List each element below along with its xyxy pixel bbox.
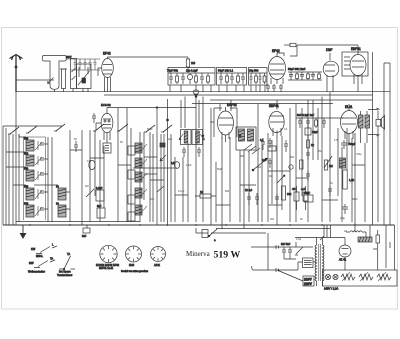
row C capacitor 5 bbox=[311, 72, 315, 80]
svg-text:380: 380 bbox=[373, 248, 378, 251]
bus y103.5 bbox=[192, 103, 333, 105]
capacitor 0.1 left bbox=[268, 138, 272, 148]
box 0.1uF bbox=[96, 187, 104, 201]
volume pot bbox=[277, 175, 285, 183]
svg-text:50pF: 50pF bbox=[147, 128, 153, 131]
tube V5 DBF bbox=[323, 57, 339, 84]
tube V8 EL41 output bbox=[341, 104, 358, 145]
svg-text:410: 410 bbox=[87, 160, 92, 163]
tuner verticals mid bbox=[48, 108, 131, 226]
component row A box bbox=[168, 68, 215, 86]
row C1 resistor 2 bbox=[255, 73, 258, 84]
resistor on B+ line bbox=[284, 43, 296, 46]
IF transformer T1 unit B bbox=[192, 130, 205, 145]
svg-text:20k: 20k bbox=[287, 192, 292, 196]
box around EAF42 bbox=[214, 108, 237, 137]
detector switch lever bbox=[253, 158, 268, 170]
mid-right verticals bbox=[268, 92, 378, 225]
svg-text:1,2k: 1,2k bbox=[349, 178, 355, 182]
input block box 2 bbox=[77, 64, 92, 89]
svg-text:2B47: 2B47 bbox=[66, 56, 72, 59]
svg-text:5nF 5nF: 5nF 5nF bbox=[281, 243, 291, 246]
svg-text:Wellenschalter: Wellenschalter bbox=[28, 270, 45, 274]
switch lever t7 bbox=[161, 125, 172, 132]
coil group 5 bbox=[24, 203, 44, 218]
caps under V4 c bbox=[279, 84, 283, 92]
coil group 4 bbox=[24, 186, 44, 201]
box col x128 3 bbox=[128, 195, 135, 204]
svg-text:220V: 220V bbox=[304, 282, 313, 286]
row C1 capacitor 3 bbox=[259, 73, 262, 84]
svg-text:1k 4,0: 1k 4,0 bbox=[245, 188, 253, 192]
rail junction dots bbox=[29, 224, 356, 226]
mains wires to trafo bbox=[277, 242, 313, 281]
svg-text:50B: 50B bbox=[24, 203, 29, 206]
resistor diag c bbox=[86, 189, 94, 197]
tone switch diagonal bbox=[324, 156, 332, 168]
switch lever t5 bbox=[117, 124, 128, 131]
component row C rails bbox=[288, 72, 322, 80]
tube socket S1 bbox=[100, 245, 117, 262]
box 5n bbox=[97, 205, 105, 218]
ground bbox=[20, 225, 27, 239]
voltage box lower bbox=[303, 276, 314, 286]
antenna bbox=[10, 55, 23, 93]
top row cap b bbox=[79, 59, 82, 70]
junction dots mid bbox=[202, 135, 204, 137]
IF transformer T1 unit A bbox=[179, 130, 191, 145]
capacitor 50uF r bbox=[342, 204, 348, 214]
svg-text:KW: KW bbox=[31, 247, 36, 251]
svg-text:4,5µ: 4,5µ bbox=[340, 217, 345, 220]
switch lever t3 bbox=[54, 124, 65, 131]
caps under V4 b bbox=[272, 84, 276, 92]
horizontal link y174 bbox=[144, 173, 157, 175]
svg-text:Minerva: Minerva bbox=[186, 250, 211, 258]
switch lever t1 bbox=[8, 127, 19, 134]
wire V1 top to resistor bbox=[108, 56, 189, 58]
tuner coil col4 group d bbox=[135, 188, 147, 198]
filter choke bbox=[346, 231, 366, 232]
row A capacitor 1 bbox=[169, 73, 173, 84]
resistor under ECH42 bbox=[103, 143, 111, 153]
svg-text:EF42: EF42 bbox=[272, 49, 280, 53]
short verticals above T1 bbox=[181, 97, 231, 138]
junction arrow above trafo bbox=[320, 236, 324, 240]
svg-text:TA: TA bbox=[67, 252, 70, 256]
coil group 2 bbox=[24, 153, 44, 167]
cap right of EBF bbox=[284, 140, 288, 152]
wave switch diagram MW bbox=[29, 257, 55, 268]
row drops to bus bbox=[170, 85, 265, 92]
resistor 1.2k tall bbox=[343, 170, 355, 189]
cap 180pF bbox=[261, 138, 265, 150]
coupling core bar bbox=[60, 69, 67, 89]
input block box 1 bbox=[71, 59, 77, 89]
svg-text:5nF: 5nF bbox=[97, 205, 102, 208]
coil group 6 bbox=[56, 186, 66, 201]
svg-text:1µF: 1µF bbox=[262, 158, 267, 162]
fuse blob on bus bbox=[193, 90, 199, 97]
svg-text:170: 170 bbox=[334, 139, 339, 142]
svg-text:4M: 4M bbox=[269, 175, 272, 178]
svg-text:EM4: EM4 bbox=[129, 264, 135, 267]
component row B box bbox=[217, 68, 247, 86]
tuner vertical bundle left bbox=[6, 128, 19, 225]
resistor R 1M bbox=[186, 57, 195, 73]
svg-text:50B: 50B bbox=[24, 168, 29, 171]
svg-text:DBF: DBF bbox=[326, 48, 332, 52]
svg-text:AZ 41: AZ 41 bbox=[339, 258, 347, 262]
wire antenna down bbox=[15, 92, 17, 225]
rectifier tube AZ41 bbox=[339, 238, 351, 267]
tube V2 ECH42 bbox=[96, 108, 113, 144]
V5 wires bbox=[327, 53, 333, 92]
component row C1 box bbox=[249, 68, 268, 86]
top row cap c bbox=[84, 59, 87, 70]
row C capacitor 1 bbox=[289, 72, 293, 80]
dial lamp 1 bbox=[325, 274, 330, 279]
svg-text:50µF: 50µF bbox=[352, 198, 358, 201]
mains lead wire top bbox=[251, 247, 268, 270]
tube V6 EL41 top bbox=[350, 52, 366, 92]
box 30nF bbox=[304, 191, 313, 202]
svg-text:EL41: EL41 bbox=[345, 105, 353, 109]
resistor 50k vert bbox=[300, 160, 303, 169]
switch under T2 bbox=[244, 144, 260, 154]
svg-text:TA: TA bbox=[50, 257, 53, 261]
row C1 capacitor 1 bbox=[250, 73, 253, 84]
svg-text:50B: 50B bbox=[24, 186, 29, 189]
svg-text:25n: 25n bbox=[318, 150, 323, 153]
svg-text:50pF 10k 0.1: 50pF 10k 0.1 bbox=[218, 69, 234, 73]
diag lever mid bbox=[157, 186, 164, 192]
svg-text:700pF: 700pF bbox=[348, 142, 356, 146]
svg-text:0,5: 0,5 bbox=[171, 161, 175, 165]
svg-text:5nF 0.1µF 1nF: 5nF 0.1µF 1nF bbox=[297, 113, 314, 117]
cap 0.5uF bbox=[171, 161, 180, 168]
svg-text:519 W: 519 W bbox=[214, 250, 241, 261]
svg-text:4pF: 4pF bbox=[168, 138, 173, 141]
row D under line bbox=[296, 117, 344, 119]
tube V1 EF42 bbox=[98, 57, 113, 92]
resistor small box bbox=[268, 146, 276, 151]
bus y96.5 bbox=[104, 94, 373, 96]
tuner top rail bbox=[3, 126, 62, 225]
tuner link lines bbox=[6, 134, 70, 209]
svg-text:40: 40 bbox=[292, 187, 296, 191]
svg-text:0,1µF: 0,1µF bbox=[178, 190, 185, 193]
resistor 20k box bbox=[282, 186, 292, 200]
bus y100 bbox=[210, 99, 373, 101]
wire ECH42 top bbox=[107, 107, 196, 109]
voltage selector box upper bbox=[303, 258, 317, 268]
main bus y92 bbox=[16, 90, 390, 92]
capacitor mid2 bbox=[255, 193, 259, 205]
mains switch diag bbox=[295, 247, 303, 255]
row C resistor 2 bbox=[296, 72, 299, 80]
row B capacitor 3 bbox=[230, 73, 234, 84]
capacitor 700p bbox=[341, 140, 356, 149]
row B capacitor 5 bbox=[241, 73, 245, 84]
assorted link segments bbox=[70, 150, 365, 205]
assorted small labels bbox=[74, 121, 378, 251]
row C capacitor 3 bbox=[300, 72, 304, 80]
diag arrow mid bbox=[160, 155, 166, 161]
oval coil b bbox=[89, 160, 95, 169]
jack circle bbox=[289, 165, 293, 169]
tuner coil col4 group e bbox=[135, 205, 147, 215]
row B resistor 4 bbox=[237, 73, 240, 84]
rail x372.5 bbox=[372, 52, 374, 225]
svg-text:10µF: 10µF bbox=[312, 130, 318, 134]
electrolytic 40uF b bbox=[301, 186, 308, 210]
wire vertical x157 bbox=[156, 108, 158, 226]
row B resistor 2 bbox=[226, 73, 229, 84]
coil group 1 bbox=[24, 138, 44, 152]
field coil hatched bbox=[358, 237, 372, 242]
tuner coil col4 group a bbox=[135, 143, 147, 153]
row B capacitor 1 bbox=[219, 73, 223, 84]
coil group 7 bbox=[56, 203, 66, 218]
svg-text:Sockel von unten gesehen: Sockel von unten gesehen bbox=[121, 270, 149, 273]
caps beside ECH42 bbox=[92, 113, 96, 123]
svg-text:50pF 30k 10nF: 50pF 30k 10nF bbox=[288, 67, 306, 71]
svg-text:1M: 1M bbox=[191, 61, 196, 65]
svg-text:EBF41 EL41: EBF41 EL41 bbox=[99, 267, 114, 270]
dial lamp 2 bbox=[333, 274, 338, 279]
horizontal link y168 bbox=[133, 167, 177, 169]
resistor 1M vert mid bbox=[324, 160, 332, 170]
trim capacitor a bbox=[74, 141, 78, 152]
wires transformer top bbox=[295, 238, 345, 241]
svg-text:700p: 700p bbox=[356, 153, 362, 156]
IF transformer T2 box bbox=[236, 127, 256, 150]
tube socket S2 bbox=[126, 246, 142, 262]
junction dot x167 bbox=[167, 119, 169, 121]
top row cap a bbox=[74, 59, 77, 70]
row D cap 1 bbox=[298, 118, 302, 128]
transformer primary winding bbox=[315, 240, 317, 281]
svg-text:10n 0.1µF: 10n 0.1µF bbox=[186, 69, 198, 73]
bottom rail right1 bbox=[216, 228, 330, 230]
row C resistor 4 bbox=[307, 72, 310, 80]
svg-text:500: 500 bbox=[225, 190, 230, 193]
svg-text:30µ 500: 30µ 500 bbox=[249, 69, 259, 73]
link y171 bbox=[268, 170, 290, 172]
resistor 2k bbox=[307, 140, 315, 148]
lamp board bbox=[323, 270, 398, 286]
svg-text:0,5A: 0,5A bbox=[296, 238, 301, 241]
row C1 resistor 4 bbox=[263, 73, 266, 84]
row D cap 4 bbox=[322, 118, 326, 128]
eye block EM4 bbox=[342, 52, 368, 76]
svg-text:2A: 2A bbox=[344, 230, 347, 233]
bottom rail thin left bbox=[16, 221, 140, 223]
board wires bbox=[317, 248, 378, 286]
V6 top wire bbox=[343, 45, 358, 52]
Minerva title bbox=[186, 250, 240, 261]
tuner verticals right bbox=[150, 99, 171, 225]
svg-text:3nF: 3nF bbox=[257, 166, 262, 169]
row A resistor 7 bbox=[207, 73, 210, 84]
board resistor 2 zigzag bbox=[359, 272, 373, 281]
middle verticals bbox=[140, 97, 262, 230]
row C resistor 6 bbox=[318, 72, 321, 80]
svg-text:2nF: 2nF bbox=[150, 198, 155, 201]
verticals above trafo bbox=[324, 225, 331, 238]
row A resistor 2 bbox=[176, 73, 179, 84]
svg-text:Tonabnehmer: Tonabnehmer bbox=[57, 274, 72, 277]
small resistor right bbox=[376, 230, 379, 248]
box col x128 4 bbox=[128, 212, 135, 221]
capacitor 1n r bbox=[306, 171, 310, 181]
wire antenna to coil bbox=[16, 79, 54, 81]
tube socket S3 bbox=[151, 247, 166, 262]
switch lever t6 bbox=[144, 125, 155, 132]
board resistor 1 zigzag bbox=[341, 272, 355, 281]
svg-text:AZ41: AZ41 bbox=[154, 264, 161, 267]
output transformer bbox=[359, 111, 370, 143]
row A capacitor 6 bbox=[200, 73, 204, 84]
tube V7 EBF41 bbox=[269, 100, 284, 140]
pickup switch diagram bbox=[59, 252, 75, 270]
top row cap e bbox=[94, 59, 97, 70]
row A coil 4 bbox=[187, 73, 192, 84]
B+ top line bbox=[297, 44, 343, 46]
svg-text:MW+L: MW+L bbox=[36, 255, 44, 258]
svg-text:0,1: 0,1 bbox=[284, 128, 288, 131]
wire V4 top bbox=[277, 45, 297, 56]
mains switch bbox=[196, 228, 217, 242]
svg-text:EBF41: EBF41 bbox=[351, 47, 361, 51]
top component row wires bbox=[66, 59, 100, 70]
right rails bbox=[384, 63, 390, 225]
svg-text:5nF: 5nF bbox=[82, 235, 87, 238]
capacitor 1uF left bbox=[268, 158, 272, 168]
right drop bbox=[394, 225, 396, 270]
tube V4 EF42 right bbox=[269, 53, 286, 84]
svg-text:0,1µF: 0,1µF bbox=[96, 187, 103, 190]
svg-text:4M: 4M bbox=[85, 185, 88, 188]
resistor 1k mid bbox=[195, 190, 216, 198]
tuner coil col4 group b bbox=[135, 158, 147, 168]
svg-text:1M: 1M bbox=[329, 164, 333, 168]
svg-text:50B: 50B bbox=[24, 153, 29, 156]
capacitor mid3 bbox=[275, 194, 279, 204]
svg-text:24BY / 2,2A: 24BY / 2,2A bbox=[324, 287, 339, 291]
svg-text:MW: MW bbox=[29, 261, 34, 265]
top row cap d bbox=[89, 59, 92, 70]
svg-text:10nF: 10nF bbox=[186, 164, 192, 167]
power verticals right bbox=[355, 225, 390, 268]
svg-text:0,1: 0,1 bbox=[260, 138, 264, 142]
wave switch diagram KW bbox=[31, 243, 57, 259]
bottom rail right2 bbox=[211, 232, 266, 234]
block pins to bus bbox=[64, 89, 89, 93]
mains feed vertical bbox=[267, 233, 269, 247]
junction dot bbox=[156, 107, 158, 109]
caps under V4 a bbox=[266, 84, 270, 92]
caps below T1 bbox=[182, 147, 201, 157]
bottom rail bold bbox=[3, 224, 395, 226]
row A capacitor 3 bbox=[181, 73, 185, 84]
svg-text:EAF42: EAF42 bbox=[227, 103, 237, 107]
board resistor 3 zigzag bbox=[377, 272, 391, 281]
row A resistor 5 bbox=[195, 73, 198, 84]
socket S1 text bbox=[96, 264, 120, 270]
svg-text:ECH42: ECH42 bbox=[101, 103, 111, 107]
electrolytic 10uF bbox=[305, 124, 318, 140]
tuner col1 box outline bbox=[24, 137, 46, 220]
row D res 3 bbox=[315, 118, 318, 128]
transformer secondary winding bbox=[323, 240, 325, 281]
row D cap 2 bbox=[306, 118, 310, 128]
small cap mid bbox=[160, 143, 165, 147]
capacitor mid1 bbox=[247, 193, 251, 205]
switch lever t4 bbox=[93, 124, 104, 131]
power transformer TR core bbox=[319, 244, 321, 281]
mains caps 5nF bbox=[281, 243, 292, 256]
antenna rod T outline bbox=[42, 56, 66, 93]
capacitor 5n r bbox=[306, 150, 310, 160]
svg-text:110V: 110V bbox=[304, 278, 312, 282]
tone coil hatched bbox=[340, 158, 346, 168]
box col x128 2 bbox=[128, 170, 135, 179]
mains terminal ticks bbox=[268, 245, 279, 272]
tube V3 EAF42 bbox=[218, 107, 234, 142]
boxes col x128 bbox=[128, 146, 135, 155]
svg-text:50pF: 50pF bbox=[217, 168, 223, 171]
pickup switch text bbox=[57, 271, 72, 278]
svg-text:70pF 50k: 70pF 50k bbox=[167, 69, 179, 73]
svg-text:50B: 50B bbox=[24, 138, 29, 141]
cap at 83 228 bbox=[82, 225, 90, 238]
svg-text:30nF: 30nF bbox=[304, 191, 310, 195]
speaker bbox=[368, 108, 385, 136]
coil group 3 bbox=[24, 168, 44, 182]
electrolytic 40uF a bbox=[292, 186, 299, 210]
antenna contact arrow bbox=[48, 78, 54, 84]
svg-text:EF42: EF42 bbox=[103, 52, 111, 56]
tuner coil col4 group c bbox=[135, 172, 147, 182]
switch lever t2 bbox=[26, 126, 37, 133]
capacitor 5n b bbox=[328, 186, 332, 196]
svg-text:EBF41: EBF41 bbox=[269, 104, 279, 108]
